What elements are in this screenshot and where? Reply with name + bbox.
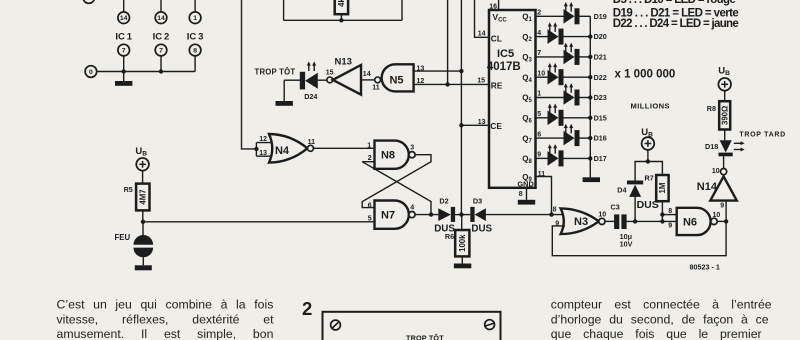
D21 light arrows: [565, 46, 567, 52]
svg-text:4: 4: [537, 30, 541, 37]
svg-text:RE: RE: [491, 81, 503, 91]
svg-text:R6: R6: [445, 232, 454, 241]
wire D24 to N13: [318, 79, 327, 81]
nand N5 output bubble: [375, 77, 381, 83]
junction: [588, 116, 592, 120]
wire IC2 pin14 stub up: [160, 0, 162, 12]
wire R8 to UB: [724, 91, 726, 102]
svg-text:8: 8: [553, 206, 557, 213]
svg-text:FEU: FEU: [115, 233, 131, 242]
svg-text:N14: N14: [697, 181, 718, 193]
wire UB down: [647, 150, 649, 162]
junction: [339, 18, 343, 22]
supply UB for R5: [135, 146, 149, 171]
svg-text:compteur est connectée à l’ent: compteur est connectée à l’entrée: [551, 298, 772, 312]
wire N8 pin2 stub: [362, 161, 374, 163]
svg-text:8: 8: [519, 191, 523, 198]
wire D21 to bus: [580, 56, 591, 58]
junction: [429, 212, 433, 216]
svg-text:D22 . . . D24 = LED = jaune: D22 . . . D24 = LED = jaune: [613, 18, 739, 30]
wire ground bus: [97, 71, 195, 73]
wire node up to N14: [725, 201, 727, 222]
wire D23 to bus: [580, 97, 591, 99]
svg-text:2: 2: [537, 10, 541, 17]
IC5 4017B counter: [489, 10, 536, 188]
wire N4 input tie: [255, 143, 257, 157]
junction: [459, 69, 463, 73]
svg-text:N5: N5: [389, 74, 403, 86]
svg-text:15: 15: [326, 69, 334, 76]
ground: [518, 200, 535, 205]
svg-text:D3: D3: [473, 196, 482, 205]
junction: [549, 212, 553, 216]
D18 light arrows: [734, 142, 741, 144]
wire N14 up to D18 bubble: [723, 156, 725, 168]
svg-text:vitesse, réflexes, dextérité e: vitesse, réflexes, dextérité et: [57, 312, 275, 326]
led D20: [548, 29, 559, 44]
svg-text:d’horloge du second, de façon: d’horloge du second, de façon à ce: [551, 312, 769, 326]
junction: [588, 75, 592, 79]
led D24: [300, 72, 305, 90]
wire cross-couple N8out to N7in: [362, 155, 431, 208]
svg-text:100k: 100k: [458, 234, 467, 252]
junction: [588, 95, 592, 99]
wire IC2 pin7 down: [160, 56, 162, 72]
D24 light arrows: [308, 65, 310, 71]
wire Q9 to N3 pin8: [536, 177, 552, 215]
ground: [276, 101, 293, 106]
screw icon left: [331, 320, 341, 330]
svg-text:CE: CE: [490, 121, 502, 131]
wire D17 to bus: [564, 157, 591, 159]
wire vertical from top through CE to R6: [460, 0, 462, 215]
junction: [588, 156, 592, 160]
ground: [583, 177, 600, 182]
figure 2 photo frame: [323, 312, 501, 340]
diode D2: [438, 208, 451, 221]
terminal circle cut at top edge: [83, 0, 95, 3]
resistor R (cut at top edge): [335, 0, 348, 14]
svg-text:D23: D23: [594, 93, 607, 102]
svg-text:D2: D2: [439, 196, 448, 205]
resistor R8: [719, 101, 730, 129]
IC1 pin 7 terminal: [118, 44, 130, 56]
inverter N13 output bubble: [327, 77, 333, 83]
wire vertical from top to CL: [475, 0, 490, 37]
wire C3 to N6 pin9: [627, 220, 677, 222]
wire N3 pin9 feedback: [552, 221, 726, 255]
svg-text:IC5: IC5: [497, 48, 514, 60]
D22 light arrows: [549, 66, 551, 72]
ground: [135, 265, 152, 270]
capacitor C3: [614, 214, 619, 229]
wire D3 to N3 pin8: [486, 214, 563, 216]
svg-text:D18: D18: [705, 142, 718, 151]
nor gate N3: [561, 208, 599, 234]
resistor R5: [136, 184, 149, 211]
svg-text:TROP TÔT: TROP TÔT: [255, 68, 296, 77]
inverter N13: [333, 65, 361, 95]
nand gate N7: [375, 201, 409, 229]
junction: [141, 220, 145, 224]
wire N4 pin12 stub: [256, 142, 273, 144]
svg-text:4: 4: [410, 204, 414, 211]
junction: [660, 212, 664, 216]
diode D4: [627, 181, 643, 185]
svg-text:R8: R8: [707, 104, 716, 113]
wire Q4 to LED: [536, 76, 548, 78]
wire top loop horizontal: [284, 19, 402, 21]
led D19: [564, 9, 575, 24]
svg-text:7: 7: [122, 48, 126, 55]
supply UB for R8: [718, 65, 731, 90]
wire cross-couple N7out to N8in: [362, 162, 431, 215]
led D21: [564, 50, 575, 65]
wire D16 to bus: [580, 137, 591, 139]
svg-text:N3: N3: [574, 216, 588, 228]
wire ground up to D24: [283, 80, 285, 101]
N4 output bubble: [308, 145, 314, 151]
svg-text:D17: D17: [594, 154, 607, 163]
lamp FEU upper electrode: [134, 235, 154, 245]
wire D2 to D3: [455, 214, 470, 216]
svg-text:IC 1: IC 1: [115, 32, 132, 43]
svg-text:13: 13: [259, 150, 267, 157]
svg-text:D15: D15: [594, 113, 607, 122]
IC2 pin 7 terminal: [155, 44, 167, 56]
wire IC3 pin8 down: [194, 56, 196, 72]
junction: [724, 219, 728, 223]
led D22: [548, 70, 559, 85]
svg-text:D4: D4: [617, 186, 626, 195]
svg-text:12: 12: [259, 136, 267, 143]
svg-text:12: 12: [417, 78, 425, 85]
svg-text:2: 2: [302, 298, 312, 319]
svg-text:10: 10: [713, 212, 721, 219]
svg-text:1: 1: [367, 142, 371, 149]
D16 light arrows: [565, 127, 567, 133]
wire N3 out to C3: [605, 220, 614, 222]
svg-text:80523 - 1: 80523 - 1: [690, 262, 720, 271]
wire N7 output: [415, 214, 438, 216]
svg-text:10: 10: [537, 70, 545, 77]
wire to D4 branch: [635, 162, 648, 181]
wire Q6 to LED: [536, 117, 548, 119]
wire D15 to bus: [564, 117, 591, 119]
wire LED cathode bus: [589, 16, 591, 177]
svg-text:5: 5: [537, 111, 541, 118]
wire IC3 pin1 stub up: [194, 0, 196, 12]
resistor R7: [656, 175, 668, 201]
svg-text:R7: R7: [645, 174, 654, 183]
svg-text:7: 7: [159, 48, 163, 55]
junction: [646, 159, 650, 163]
wire vertical from top to RE junction: [447, 0, 449, 84]
svg-text:1: 1: [537, 91, 541, 98]
wire R6 to ground: [461, 256, 463, 263]
wire R7 down: [661, 201, 663, 221]
wire N5 pin13: [414, 70, 462, 72]
svg-text:D5 . . . D10 = LED = rouge: D5 . . . D10 = LED = rouge: [613, 0, 736, 6]
wire D22 to bus: [564, 76, 591, 78]
wire N5 pin12 to IC5 RE: [414, 83, 489, 85]
svg-text:N13: N13: [335, 57, 352, 68]
svg-text:14: 14: [120, 15, 128, 22]
svg-text:TROP TÔT: TROP TÔT: [406, 333, 444, 340]
svg-text:6: 6: [368, 202, 372, 209]
svg-text:11: 11: [308, 139, 316, 146]
led D15: [548, 111, 559, 126]
led D23: [564, 90, 575, 105]
svg-text:10: 10: [712, 168, 720, 175]
wire D19 to bus: [580, 15, 591, 17]
D23 light arrows: [565, 87, 567, 93]
wire junction down to R6: [461, 215, 463, 230]
wire to D24: [284, 79, 300, 81]
led D17: [548, 151, 559, 166]
wire IC1 pin14 stub up: [123, 0, 125, 12]
wire long vertical to N4: [242, 0, 257, 149]
svg-text:16: 16: [489, 4, 497, 11]
svg-text:8: 8: [193, 48, 197, 55]
svg-text:que chaque fois que le premier: que chaque fois que le premier: [551, 327, 762, 340]
svg-text:3: 3: [410, 145, 414, 152]
svg-text:5: 5: [368, 216, 372, 223]
wire Q7 to LED: [536, 137, 564, 139]
svg-text:GND: GND: [517, 180, 534, 189]
nand gate N6: [677, 208, 711, 235]
wire IC5 pin8 ground stub: [526, 188, 528, 200]
svg-text:N7: N7: [381, 210, 395, 222]
D19 light arrows: [565, 5, 567, 11]
junction: [588, 136, 592, 140]
ground: [454, 264, 471, 269]
wire Q5 to LED: [536, 97, 564, 99]
IC3 pin 1 terminal: [189, 12, 201, 24]
svg-text:1M: 1M: [658, 183, 667, 194]
svg-text:14: 14: [363, 71, 371, 78]
junction: [445, 82, 449, 86]
svg-text:DUS: DUS: [471, 223, 492, 234]
wire N4 pin13 stub: [256, 155, 273, 157]
N3 output bubble: [599, 218, 605, 224]
wire R5 down: [142, 210, 144, 221]
wire N6 output to node: [717, 220, 726, 222]
wire top loop right vertical: [401, 0, 403, 20]
svg-text:CL: CL: [491, 34, 502, 44]
wire N13 to N5 bubble: [361, 79, 375, 81]
wire top loop left vertical: [283, 0, 285, 20]
wire FEU to ground: [142, 257, 144, 265]
svg-text:D19: D19: [594, 12, 607, 21]
wire to N7 pin5: [143, 221, 375, 223]
svg-text:6: 6: [537, 131, 541, 138]
wire Q8 to LED: [536, 157, 548, 159]
led D16: [564, 131, 575, 146]
N6 output bubble: [711, 218, 717, 224]
junction: [122, 69, 126, 73]
svg-text:MILLIONS: MILLIONS: [631, 101, 670, 110]
svg-text:D24: D24: [304, 92, 317, 101]
svg-text:14: 14: [478, 31, 486, 38]
junction: [588, 34, 592, 38]
svg-text:4k7: 4k7: [337, 0, 346, 7]
wire D4 down to node: [634, 197, 636, 222]
svg-text:D16: D16: [594, 134, 607, 143]
svg-text:R5: R5: [124, 185, 133, 194]
svg-text:amusement. Il est simple, bon: amusement. Il est simple, bon: [57, 327, 274, 340]
wire D20 to bus: [564, 36, 591, 38]
svg-text:4017B: 4017B: [487, 61, 521, 73]
svg-text:14: 14: [157, 15, 165, 22]
supply UB for R7/D4: [641, 127, 654, 150]
svg-text:9: 9: [537, 152, 541, 159]
node 0 terminal: [85, 66, 97, 78]
nor gate N4: [269, 134, 307, 163]
wire UB to R5: [142, 171, 144, 184]
IC2 pin 14 terminal: [155, 12, 167, 24]
svg-text:C’est un jeu qui combine à la: C’est un jeu qui combine à la fois: [57, 298, 274, 312]
svg-text:13: 13: [417, 66, 425, 73]
IC1 pin 14 terminal: [118, 12, 130, 24]
screw icon right: [485, 320, 495, 330]
wire IC1 pin7 down: [123, 56, 125, 72]
svg-text:IC 3: IC 3: [187, 32, 204, 43]
junction: [660, 219, 664, 223]
svg-text:1: 1: [193, 15, 197, 22]
svg-text:TROP TARD: TROP TARD: [739, 132, 786, 139]
wire N6 pin8 stub: [662, 214, 676, 216]
svg-text:N8: N8: [381, 150, 395, 162]
junction: [588, 55, 592, 59]
svg-text:11: 11: [372, 84, 380, 91]
wire N4 to N8 pin1: [314, 147, 375, 149]
svg-text:8: 8: [668, 208, 672, 215]
svg-text:9: 9: [720, 202, 724, 209]
wire IC5 CE to vertical: [461, 124, 489, 126]
junction: [459, 212, 463, 216]
svg-text:0: 0: [89, 69, 93, 76]
ground: [115, 81, 132, 86]
D15 light arrows: [549, 107, 551, 113]
D17 light arrows: [549, 148, 551, 154]
D20 light arrows: [549, 26, 551, 32]
led D18 (pointing down): [720, 140, 732, 152]
svg-text:10V: 10V: [620, 240, 633, 249]
svg-text:7: 7: [537, 50, 541, 57]
svg-text:x 1 000 000: x 1 000 000: [615, 69, 676, 81]
svg-text:15: 15: [477, 78, 485, 85]
svg-text:D22: D22: [594, 73, 607, 82]
svg-text:4M7: 4M7: [138, 189, 147, 204]
svg-text:9: 9: [668, 223, 672, 230]
resistor R6: [455, 230, 469, 256]
wire IC5 pin16 stub up: [498, 0, 500, 10]
svg-text:390Ω: 390Ω: [720, 106, 729, 125]
junction: [459, 123, 463, 127]
svg-text:C3: C3: [611, 202, 620, 211]
N8 output bubble: [409, 152, 415, 158]
svg-text:13: 13: [478, 119, 486, 126]
svg-text:IC 2: IC 2: [153, 32, 170, 43]
svg-text:N6: N6: [683, 216, 697, 228]
svg-text:N4: N4: [275, 145, 290, 157]
lamp FEU lower electrode: [134, 248, 154, 258]
wire resistor to loop: [340, 14, 342, 20]
wire ground stub: [123, 72, 125, 82]
diode D3: [470, 207, 474, 222]
nand gate N8: [375, 141, 409, 169]
junction node N4 input: [254, 147, 258, 151]
svg-text:D21: D21: [594, 53, 607, 62]
wire D18 to R8: [724, 130, 726, 141]
junction: [159, 69, 163, 73]
wire Q2 to LED: [536, 36, 548, 38]
IC3 pin 8 terminal: [189, 44, 201, 56]
svg-text:10: 10: [598, 211, 606, 218]
wire Q3 to LED: [536, 56, 564, 58]
wire Q1 to LED: [536, 15, 564, 17]
inverter N14 (pointing up): [710, 176, 737, 200]
svg-text:D20: D20: [594, 32, 607, 41]
N14 output bubble: [721, 169, 727, 175]
N7 output bubble: [409, 212, 415, 218]
wire down to FEU lamp: [142, 222, 144, 236]
junction: [633, 219, 637, 223]
wire to R7 branch: [648, 162, 663, 176]
nand gate N5 (mirrored): [382, 64, 414, 91]
